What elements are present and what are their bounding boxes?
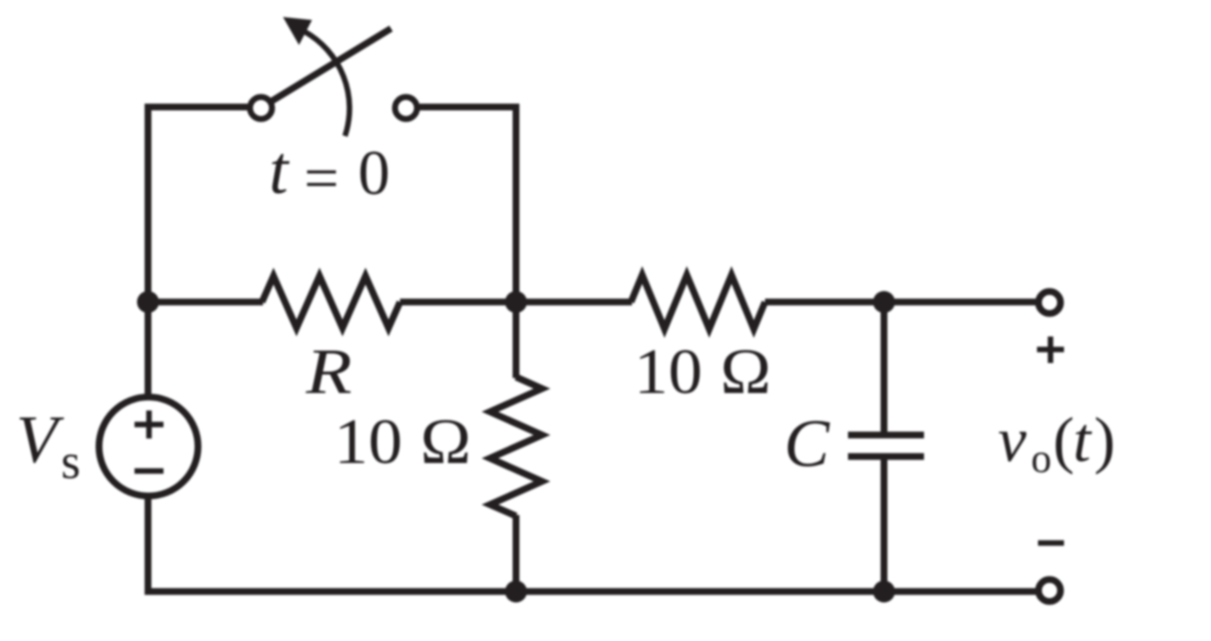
wire: right 10 ohm resistor to node C bbox=[765, 299, 884, 306]
resistor R (horizontal zigzag) bbox=[262, 276, 400, 328]
output terminal - (open circle) bbox=[1039, 580, 1061, 602]
label t = 0 bbox=[269, 132, 390, 213]
svg-text:10 Ω: 10 Ω bbox=[334, 406, 472, 478]
wire: top rail left segment with top-left corner bbox=[148, 107, 248, 397]
wire: left rail below source to bottom rail and bottom rail to terminal bbox=[148, 496, 1036, 592]
voltage source minus sign bbox=[135, 468, 164, 474]
output terminal + (open circle) bbox=[1039, 292, 1061, 314]
wire: node A to resistor R bbox=[148, 299, 263, 306]
svg-text:(: ( bbox=[1053, 404, 1074, 475]
svg-text:t: t bbox=[1073, 404, 1093, 475]
switch S1 left contact bbox=[250, 97, 272, 119]
wire: node B down to vertical resistor bbox=[513, 302, 520, 378]
wire: node C down to capacitor top plate bbox=[881, 302, 888, 433]
label vo(t) bbox=[998, 404, 1115, 481]
switch S1 right contact bbox=[395, 97, 417, 119]
voltage source Vs (circle symbol) bbox=[99, 397, 198, 496]
junction node A (left rail / mid rail) bbox=[137, 291, 159, 313]
wire: node C to output + terminal bbox=[884, 299, 1036, 306]
svg-text:C: C bbox=[784, 405, 830, 481]
wire: vertical resistor to bottom node bbox=[513, 515, 520, 592]
capacitor C top plate bbox=[848, 432, 924, 439]
svg-text:t: t bbox=[269, 132, 290, 208]
switch S1 motion arc bbox=[305, 32, 350, 137]
switch S1 blade bbox=[271, 29, 391, 102]
svg-text:v: v bbox=[998, 404, 1027, 475]
capacitor C bottom plate bbox=[848, 453, 924, 460]
label Vs bbox=[16, 401, 80, 489]
svg-text:o: o bbox=[1031, 435, 1052, 481]
svg-text:): ) bbox=[1094, 404, 1115, 475]
svg-text:R: R bbox=[305, 336, 352, 408]
junction node E (bottom rail / capacitor) bbox=[873, 581, 895, 603]
wire: node B to right 10 ohm resistor bbox=[516, 299, 632, 306]
svg-text:0: 0 bbox=[358, 137, 390, 208]
svg-text:=: = bbox=[304, 145, 339, 213]
svg-text:s: s bbox=[61, 433, 80, 489]
output minus sign bbox=[1038, 540, 1064, 546]
voltage source plus sign bbox=[135, 411, 164, 439]
wire: capacitor bottom plate to bottom node bbox=[881, 458, 888, 592]
junction node C (mid rail / capacitor) bbox=[873, 291, 895, 313]
resistor 10 ohm vertical (zigzag) bbox=[490, 377, 542, 516]
junction node D (bottom rail / vertical resistor) bbox=[505, 581, 527, 603]
svg-text:V: V bbox=[16, 401, 65, 477]
wire: top rail right segment and drop to node B bbox=[420, 107, 517, 302]
junction node B (mid rail / vertical resistor) bbox=[505, 291, 527, 313]
resistor 10 ohm right (horizontal zigzag) bbox=[631, 275, 765, 329]
svg-text:10 Ω: 10 Ω bbox=[634, 336, 772, 408]
switch S1 arrow head bbox=[283, 17, 312, 45]
wire: resistor R to node B bbox=[400, 299, 516, 306]
output plus sign bbox=[1037, 337, 1064, 364]
